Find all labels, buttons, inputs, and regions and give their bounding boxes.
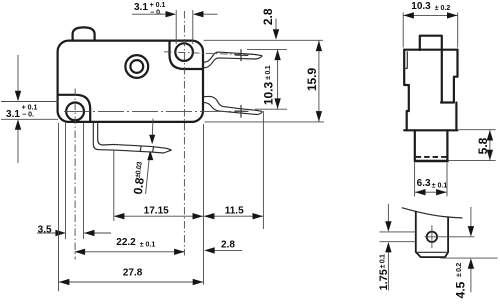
dim 27.8 overall length xyxy=(59,281,203,283)
body top edge extension xyxy=(204,39,324,41)
body left edge extension xyxy=(58,123,60,291)
svg-text:15.9: 15.9 xyxy=(305,67,319,91)
side view bottom block xyxy=(414,130,416,160)
centerline horizontal bottom hole xyxy=(64,110,249,112)
side view left seam panel xyxy=(404,51,407,68)
plunger button xyxy=(73,27,95,40)
svg-text:5.8: 5.8 xyxy=(476,137,490,154)
svg-text:6.3: 6.3 xyxy=(417,178,431,189)
svg-text:± 0.2: ± 0.2 xyxy=(456,263,463,277)
svg-text:4.5: 4.5 xyxy=(453,281,467,298)
svg-text:3.1: 3.1 xyxy=(6,109,20,120)
svg-text:3.1: 3.1 xyxy=(134,2,148,13)
dim 6.3 +-0.1 block width xyxy=(414,163,416,197)
centerline vertical bottom hole xyxy=(74,89,76,260)
bottom-left mounting boss xyxy=(58,95,90,122)
svg-text:11.5: 11.5 xyxy=(225,205,244,216)
svg-text:± 0.1: ± 0.1 xyxy=(140,242,156,249)
side view plunger xyxy=(420,36,442,50)
body bottom edge extension xyxy=(205,121,325,123)
svg-text:27.8: 27.8 xyxy=(123,267,143,278)
svg-text:± 0.2: ± 0.2 xyxy=(435,5,451,12)
dim 3.5 xyxy=(65,123,67,239)
switch body outline xyxy=(58,41,203,122)
dim 0.8 +-0.03 blade thickness xyxy=(151,119,154,137)
dim 15.9 overall height xyxy=(318,41,320,122)
svg-text:0.8: 0.8 xyxy=(131,176,147,195)
bottom quick-connect terminal xyxy=(203,96,263,111)
hidden dash line in block xyxy=(416,156,447,158)
svg-text:± 0.1: ± 0.1 xyxy=(265,65,272,79)
top-right mounting boss xyxy=(170,41,203,69)
svg-text:2.8: 2.8 xyxy=(261,8,275,25)
centerline horizontal top hole xyxy=(164,52,249,55)
svg-text:10.3: 10.3 xyxy=(262,81,276,105)
svg-text:1.75: 1.75 xyxy=(378,269,390,290)
body right edge extension xyxy=(203,124,205,285)
svg-text:10.3: 10.3 xyxy=(411,1,431,12)
svg-text:3.5: 3.5 xyxy=(38,225,52,236)
svg-text:+ 0.1: + 0.1 xyxy=(150,2,166,9)
center hole ring xyxy=(125,55,148,78)
svg-text:17.15: 17.15 xyxy=(144,205,169,216)
svg-text:± 0.1: ± 0.1 xyxy=(379,254,386,268)
svg-text:22.2: 22.2 xyxy=(116,237,136,248)
bottom-left mounting hole xyxy=(66,103,84,121)
dim 4.5 +-0.2 xyxy=(440,257,497,259)
svg-text:± 0.1: ± 0.1 xyxy=(432,182,448,189)
svg-text:− 0.: − 0. xyxy=(150,10,162,17)
dim 10.3 +-0.1 terminals spacing xyxy=(247,48,287,50)
dim 1.75 +-0.1 xyxy=(380,231,416,233)
blade section tick marks xyxy=(140,146,141,152)
bottom terminal hole cross xyxy=(240,105,242,118)
detail tab hole xyxy=(427,232,437,242)
dim 2.8 bottom right xyxy=(215,249,243,251)
top quick-connect terminal xyxy=(203,52,263,62)
dim 5.8 block height xyxy=(459,129,496,131)
svg-text:2.8: 2.8 xyxy=(221,239,235,250)
detail body edge diagonal xyxy=(402,208,463,218)
top-right mounting hole xyxy=(175,43,193,61)
detail terminal tab xyxy=(416,211,448,257)
centerline vertical top hole xyxy=(183,11,185,256)
dim 11.5 xyxy=(262,111,264,229)
dim 17.15 xyxy=(113,151,115,222)
side view body outline xyxy=(404,49,457,51)
common terminal L-blade bottom xyxy=(93,122,171,153)
svg-text:+ 0.1: + 0.1 xyxy=(22,105,38,112)
svg-text:− 0.: − 0. xyxy=(22,112,34,119)
top terminal hole cross xyxy=(240,49,242,61)
dim 22.2 +-0.1 hole centers xyxy=(75,251,185,253)
